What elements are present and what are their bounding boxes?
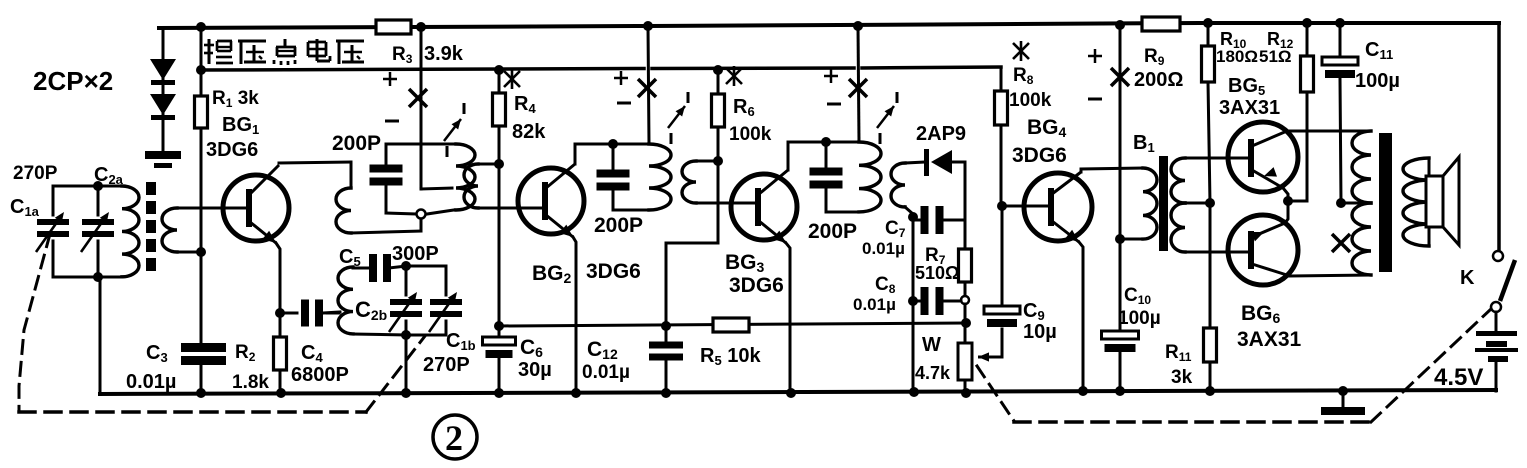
node IFT2 secondary top xyxy=(713,156,723,166)
wire box to ground rail xyxy=(405,335,408,394)
resistor R11 3k xyxy=(1204,203,1217,392)
label W xyxy=(922,334,941,356)
resistor R1 3k xyxy=(195,88,260,128)
wire secondary top to BG1 base xyxy=(177,207,246,210)
label R8 value 100k xyxy=(1009,90,1052,111)
test point - (tank3) xyxy=(827,103,841,106)
label BG1 type 3DG6 xyxy=(206,139,258,161)
svg-text:2: 2 xyxy=(445,418,463,458)
wire BG5 collector to B2 xyxy=(1287,130,1371,133)
test point x (tank3) xyxy=(849,79,867,97)
label BG6 type 3AX31 xyxy=(1237,328,1302,351)
wire IFT1 secondary to BG2 base xyxy=(478,207,542,210)
wire tank1 bottom xyxy=(386,210,454,214)
node C3 ground xyxy=(196,388,206,398)
label C1b xyxy=(446,330,476,353)
label C2b xyxy=(355,297,387,323)
wire ground bottom rail xyxy=(100,390,1496,394)
wire tank3 bottom xyxy=(826,211,859,214)
label 200P (tank2) xyxy=(594,214,643,237)
node BG4 base junction xyxy=(997,201,1007,211)
label R10 value 180ohm xyxy=(1216,47,1258,66)
resistor R5 10k (series in bus) xyxy=(700,318,761,368)
transformer B1 primary winding xyxy=(1143,168,1157,239)
label 200P (tank1) xyxy=(332,132,381,155)
wire base to BG4 xyxy=(1002,205,1048,208)
wire tank2 feed column xyxy=(648,26,649,144)
node BG4 emitter ground xyxy=(1078,386,1088,396)
label C10 value 100u xyxy=(1118,308,1161,329)
svg-text:200P: 200P xyxy=(808,220,857,243)
transistor BG1 3DG6 xyxy=(223,165,289,313)
test point - (B1 feed) xyxy=(1088,98,1102,101)
svg-text:2CP×2: 2CP×2 xyxy=(33,66,113,96)
svg-text:W: W xyxy=(922,334,941,356)
battery 4.5V xyxy=(1475,331,1518,391)
transformer B1 secondary lower winding xyxy=(1171,203,1185,252)
node R11 ground xyxy=(1205,386,1215,396)
node C8 ground side xyxy=(908,296,918,306)
test point x mark (tank1) xyxy=(409,89,427,107)
transistor BG3 3DG6 xyxy=(731,142,797,394)
label 2AP9 xyxy=(916,123,966,145)
label BG2 xyxy=(532,262,572,286)
svg-text:3AX31: 3AX31 xyxy=(1237,328,1302,351)
wire osc winding bottom xyxy=(353,334,406,335)
node R9 left junction xyxy=(1115,20,1125,30)
node tank3 feed on rail xyxy=(853,21,863,31)
capacitor C8 0.01u xyxy=(913,287,961,315)
wire wiper to C9 xyxy=(1001,329,1004,357)
node battery ground xyxy=(1338,386,1348,396)
svg-text:3AX31: 3AX31 xyxy=(1219,97,1280,119)
label C4 value 6800P xyxy=(291,364,349,386)
switch K lower contact xyxy=(1491,302,1501,312)
diode D1 2CP xyxy=(150,59,176,85)
adjust-on-test mark (R4) xyxy=(504,69,520,89)
wire osc primary bottom xyxy=(351,231,421,233)
node tank1 feed junction xyxy=(416,22,426,32)
svg-text:200Ω: 200Ω xyxy=(1134,69,1183,91)
capacitor C7 0.01u xyxy=(913,206,965,234)
svg-text:4.5V: 4.5V xyxy=(1434,364,1483,391)
wire B1 center tap xyxy=(1185,202,1210,205)
adjust-on-test mark (R6) xyxy=(726,66,742,86)
label 4.5V xyxy=(1434,364,1483,391)
node R9 right junction xyxy=(1203,18,1213,28)
svg-text:R5 10k: R5 10k xyxy=(700,345,761,368)
svg-text:3DG6: 3DG6 xyxy=(206,139,258,161)
tank3 winding xyxy=(859,142,881,212)
label C11 value 100u xyxy=(1355,70,1400,92)
label 270P (C1a value) xyxy=(13,163,58,184)
label R6 value 100k xyxy=(729,124,772,145)
svg-text:100µ: 100µ xyxy=(1355,70,1400,92)
gang dashed link diagonal to tuning box xyxy=(366,336,425,412)
label 200P (tank3) xyxy=(808,220,857,243)
wire top B+ rail xyxy=(159,23,1499,28)
wire AGC link down to bus xyxy=(666,243,718,326)
label R4 value 82k xyxy=(512,121,546,143)
terminal (open circle, tank1 bottom) xyxy=(417,210,426,219)
label C7 xyxy=(885,218,906,240)
resistor R6 100k xyxy=(712,65,725,243)
label C12 value xyxy=(582,362,630,383)
node IFT1 secondary top xyxy=(494,159,504,169)
wire right edge from rail to switch xyxy=(1497,23,1501,251)
wire secondary bottom to bias node xyxy=(177,251,201,254)
node tank2 cap top xyxy=(608,139,618,149)
transistor BG4 3DG6 xyxy=(1024,168,1143,392)
node emitters junction xyxy=(1283,196,1293,206)
svg-text:200P: 200P xyxy=(594,214,643,237)
wire R1 column xyxy=(200,27,203,394)
label BG3 type 3DG6 xyxy=(729,274,784,297)
node B1 feed junction xyxy=(1115,234,1125,244)
wire tank3 feed column xyxy=(858,26,859,142)
resistor R2 1.8k xyxy=(232,337,287,393)
test point + mark (tank1) xyxy=(383,72,397,86)
speaker driver xyxy=(1426,176,1443,227)
switch K lever xyxy=(1500,260,1515,301)
label BG3 xyxy=(725,251,765,275)
wire voice winding to speaker xyxy=(1428,158,1431,246)
speaker horn xyxy=(1443,157,1459,245)
node C12 ground xyxy=(661,388,671,398)
transformer B1 core xyxy=(1159,156,1168,251)
wire R2 column xyxy=(279,313,282,394)
test point + (B1 feed) xyxy=(1088,49,1102,63)
potentiometer W 4.7k xyxy=(958,343,972,394)
svg-text:3DG6: 3DG6 xyxy=(729,274,784,297)
capacitor C11 100u (electrolytic) xyxy=(1322,18,1358,203)
wire tank2 bottom xyxy=(613,209,649,212)
svg-text:R1 3k: R1 3k xyxy=(212,88,259,110)
svg-text:270P: 270P xyxy=(13,163,58,184)
wire IFT2 secondary to BG3 base xyxy=(696,202,755,205)
wire left edge xyxy=(99,277,102,394)
label C10 xyxy=(1124,285,1151,307)
svg-text:10µ: 10µ xyxy=(1023,321,1057,343)
node loop top right xyxy=(93,181,103,191)
ferrite core (dashed bar) xyxy=(146,182,156,271)
svg-text:300P: 300P xyxy=(392,243,439,265)
resistor R12 51ohm xyxy=(1301,18,1314,201)
label BG4 type 3DG6 xyxy=(1012,144,1067,167)
svg-text:51Ω: 51Ω xyxy=(1259,47,1292,66)
oscillator transformer primary winding xyxy=(336,162,351,233)
test point x (output) xyxy=(1332,234,1350,252)
wire switch to battery xyxy=(1495,312,1498,332)
node IFT3 secondary bottom xyxy=(908,212,918,222)
label BG6 xyxy=(1241,302,1281,326)
svg-text:6800P: 6800P xyxy=(291,364,349,386)
resistor R3 3.9k (series in rail) xyxy=(376,20,464,66)
capacitor C5 300P xyxy=(339,243,439,282)
wire stabilized-voltage bus (second rail) xyxy=(200,67,1001,70)
variable capacitor C2b xyxy=(389,266,422,335)
label C9 value 10u xyxy=(1023,321,1057,343)
diode D2 2CP xyxy=(150,94,176,120)
label C7 value xyxy=(862,239,905,258)
label C6 value 30u xyxy=(518,359,552,381)
node tank3 cap top xyxy=(821,137,831,147)
tuning arrow (tank2 core) xyxy=(668,92,688,144)
node BG3 emitter ground xyxy=(786,388,796,398)
label C6 xyxy=(520,336,543,360)
label R7 xyxy=(925,245,946,267)
diode 2AP9 xyxy=(924,149,965,176)
tank2 top wire xyxy=(575,143,649,146)
node secondary bias junction xyxy=(196,247,206,257)
transistor BG6 3AX31 xyxy=(1228,201,1371,285)
svg-text:1.8k: 1.8k xyxy=(232,372,269,393)
diode chain 2CP x2 column xyxy=(162,28,165,150)
node R2 ground xyxy=(276,388,286,398)
label C3 xyxy=(146,342,168,365)
label BG1 xyxy=(222,114,259,137)
test point - (tank2) xyxy=(617,102,631,105)
wire B2 center tap xyxy=(1341,202,1371,205)
node tank2 feed on rail xyxy=(643,21,653,31)
label R11 value 3k xyxy=(1171,367,1193,388)
svg-text:0.01µ: 0.01µ xyxy=(853,295,896,314)
label C12 xyxy=(587,338,618,362)
capacitor C10 100u (electrolytic) xyxy=(1102,239,1139,392)
node AGC bus left end xyxy=(494,321,504,331)
resistor R9 200ohm (series in rail) xyxy=(1134,17,1183,91)
node detector ground xyxy=(909,387,919,397)
resistor R8 100k xyxy=(995,67,1008,206)
label C8 value xyxy=(853,295,896,314)
tank2 winding xyxy=(649,144,671,210)
label C1b value 270P xyxy=(423,354,470,376)
tuning arrow (tank3 core) xyxy=(877,92,897,144)
transformer B2 primary lower winding xyxy=(1352,203,1371,275)
label B1 xyxy=(1133,132,1155,155)
node tuning box bottom xyxy=(401,330,411,340)
capacitor C9 10u (electrolytic) xyxy=(984,206,1020,327)
node B1 center tap xyxy=(1205,198,1215,208)
capacitor C3 0.01u xyxy=(181,343,226,365)
svg-text:270P: 270P xyxy=(423,354,470,376)
gang dashed link bottom right xyxy=(1014,420,1371,424)
label 2CP x2 xyxy=(33,66,113,96)
tank3 top wire xyxy=(788,141,859,144)
resistor R4 82k xyxy=(493,65,506,326)
wire R7 to volume pot xyxy=(964,304,967,343)
IFT3 secondary winding xyxy=(891,163,913,214)
capacitor 200P (tank1) xyxy=(370,144,403,213)
node C4 tap on emitter column xyxy=(275,308,285,318)
variable capacitor C1b xyxy=(406,266,462,335)
variable capacitor C2a xyxy=(81,186,114,277)
terminal (open circle, R7 bottom) xyxy=(961,296,969,304)
capacitor C4 6800P xyxy=(280,300,339,327)
tank1 tuned winding xyxy=(456,144,475,210)
gang dashed link bottom left xyxy=(19,410,366,414)
test point + (tank2) xyxy=(614,71,628,85)
AGC bus wire xyxy=(499,323,966,326)
label R4 xyxy=(514,93,536,116)
node C6 ground xyxy=(494,388,504,398)
label R6 xyxy=(733,96,755,119)
wire detector ground column xyxy=(912,214,915,394)
wire detector output column xyxy=(964,162,967,249)
label W value 4.7k xyxy=(915,363,951,383)
wire tank1 feed column with test point xyxy=(420,27,423,189)
svg-text:0.01µ: 0.01µ xyxy=(862,239,905,258)
node W ground xyxy=(961,388,971,398)
label C4 xyxy=(301,342,323,365)
svg-text:3k: 3k xyxy=(1171,367,1193,388)
node BG2 emitter ground xyxy=(571,388,581,398)
transistor BG2 3DG6 xyxy=(518,144,584,394)
gang dashed link (volume/switch) xyxy=(977,366,1014,421)
svg-text:100µ: 100µ xyxy=(1118,308,1161,329)
svg-text:200P: 200P xyxy=(332,132,381,155)
tuning arrow (tank1 core) xyxy=(444,103,464,157)
label C3 value xyxy=(126,371,176,393)
wire tank1 tap xyxy=(421,188,452,189)
ground (diode chain) xyxy=(145,151,181,168)
node ground (tuning box) xyxy=(401,388,411,398)
svg-text:100k: 100k xyxy=(1009,90,1052,111)
node B2 center tap xyxy=(1336,198,1346,208)
label BG2 type 3DG6 xyxy=(586,260,641,283)
node loop bottom right xyxy=(93,272,103,282)
label C8 xyxy=(875,274,896,296)
capacitor C12 0.01u xyxy=(649,326,683,394)
label BG5 type 3AX31 xyxy=(1219,97,1280,119)
label C1a xyxy=(10,196,40,219)
node C2b/C1b box top xyxy=(401,261,411,271)
capacitor C6 30u (electrolytic) xyxy=(483,326,516,394)
test point - mark (tank1) xyxy=(385,120,399,123)
test point x (B1 feed) xyxy=(1111,68,1129,86)
svg-text:K: K xyxy=(1460,267,1475,289)
label R7 value 510ohm xyxy=(915,263,959,283)
antenna coil primary winding xyxy=(122,186,139,277)
label R8 xyxy=(1013,65,1034,87)
resistor R10 180ohm xyxy=(1202,23,1215,203)
test point x (tank2) xyxy=(638,79,656,97)
transistor BG5 3AX31 xyxy=(1228,122,1298,201)
wire IFT3 secondary top to diode xyxy=(905,162,926,163)
label 稳压点电压 (stabilized point voltage) xyxy=(204,39,364,65)
wire antenna loop top xyxy=(53,185,122,188)
capacitor 200P (tank3) xyxy=(810,142,843,212)
svg-text:180Ω: 180Ω xyxy=(1216,47,1258,66)
wire antenna loop bottom xyxy=(53,276,122,279)
adjust-on-test mark (R8) xyxy=(1013,41,1029,61)
wiper arrow of W xyxy=(978,352,1002,361)
ground (battery positive) xyxy=(1321,391,1365,415)
svg-text:100k: 100k xyxy=(729,124,772,145)
resistor R7 510ohm xyxy=(959,249,972,295)
svg-text:0.01µ: 0.01µ xyxy=(582,362,630,383)
svg-text:510Ω: 510Ω xyxy=(915,263,959,283)
wire B1 secondary top to BG5 base xyxy=(1185,157,1248,160)
switch K upper contact xyxy=(1493,251,1503,261)
svg-text:30µ: 30µ xyxy=(518,359,552,381)
figure number 2 xyxy=(433,415,477,459)
node C12 on bus xyxy=(661,321,671,331)
transformer B2 core xyxy=(1379,133,1392,272)
svg-text:3DG6: 3DG6 xyxy=(586,260,641,283)
wire B1 feed column xyxy=(1119,25,1122,239)
label C11 xyxy=(1365,39,1393,62)
oscillator feedback winding xyxy=(338,267,353,334)
svg-text:82k: 82k xyxy=(512,121,546,143)
wire C4 to winding tap xyxy=(323,312,340,313)
label R11 xyxy=(1165,342,1192,364)
label R12 xyxy=(1267,29,1294,51)
tank1 tuned winding top wire xyxy=(386,143,456,146)
variable capacitor C1a xyxy=(36,186,69,277)
label R10 xyxy=(1220,29,1247,51)
IFT2 secondary winding xyxy=(682,161,718,203)
wire tank1 bottom stub to primary xyxy=(420,219,423,231)
svg-text:3DG6: 3DG6 xyxy=(1012,144,1067,167)
label R12 value 51ohm xyxy=(1259,47,1292,66)
wire BG1 collector to tank1 xyxy=(279,162,351,163)
node R1 on stabilized bus xyxy=(196,65,206,75)
antenna coil secondary winding xyxy=(162,208,177,252)
wire emitters to R12 xyxy=(1288,200,1307,203)
speaker voice winding xyxy=(1403,158,1429,246)
node R1 top on rail xyxy=(196,22,206,32)
IFT1 secondary winding xyxy=(464,164,499,208)
transformer B2 primary upper winding xyxy=(1352,131,1371,203)
wire tuning box bottom xyxy=(406,334,446,337)
label K xyxy=(1460,267,1475,289)
svg-text:2AP9: 2AP9 xyxy=(916,123,966,145)
label C9 xyxy=(1023,300,1045,323)
gang dashed link (tuning capacitor left) xyxy=(19,234,50,410)
transformer B1 secondary upper winding xyxy=(1171,158,1185,203)
capacitor 200P (tank2) xyxy=(597,144,630,210)
label BG5 xyxy=(1228,75,1265,98)
gang dashed link diagonal to switch xyxy=(1371,309,1491,422)
node C10 ground xyxy=(1115,386,1125,396)
svg-text:3.9k: 3.9k xyxy=(424,43,464,65)
svg-text:4.7k: 4.7k xyxy=(915,363,951,383)
wire osc winding top to C5 xyxy=(353,267,368,270)
svg-text:0.01µ: 0.01µ xyxy=(126,371,176,393)
label BG4 xyxy=(1027,116,1067,140)
wire B1 primary bottom xyxy=(1120,238,1143,241)
test point + (tank3) xyxy=(824,69,838,83)
wire C5 to tuning box xyxy=(389,266,406,268)
wire B1 secondary bottom to BG6 base xyxy=(1185,251,1248,254)
label C2a xyxy=(94,164,124,187)
node AGC bus at detector xyxy=(961,318,971,328)
